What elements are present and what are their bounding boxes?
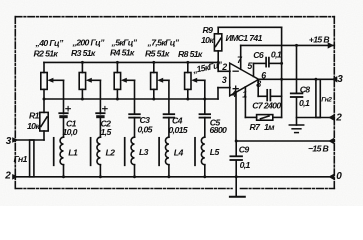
terminal 2 (output common, right)	[328, 114, 334, 120]
wire: output line pin6 to terminal 3	[258, 78, 335, 80]
junction: top bus / R9 / pin2	[217, 61, 220, 64]
junction: Гн2 top / output line	[314, 78, 317, 81]
capacitor C2 (electrolytic)	[96, 106, 107, 137]
wire: terminal 2 line (right)	[297, 117, 335, 119]
core of inductor L1	[53, 138, 55, 166]
wire: pin 2 stub	[218, 70, 230, 72]
svg-text:L4: L4	[174, 148, 184, 158]
svg-text:„5кГц”: „5кГц”	[111, 37, 138, 47]
inductor L5	[201, 137, 204, 165]
svg-text:„40 Гц”: „40 Гц”	[35, 38, 64, 48]
junction: L3/ground bus	[133, 175, 136, 178]
resistor R1	[40, 99, 48, 140]
ground symbol below bus	[230, 177, 245, 197]
terminal 2 (input common, left)	[12, 174, 18, 180]
wire: R8 wiper riser to C5	[204, 80, 206, 114]
inductor L2	[97, 137, 100, 165]
wire: L5 to ground bus	[204, 165, 206, 177]
terminal 3 (input, left)	[12, 137, 18, 143]
svg-text:1: 1	[242, 90, 247, 100]
junction: L1/ground bus	[62, 175, 65, 178]
svg-text:L2: L2	[106, 148, 116, 158]
svg-text:C6: C6	[253, 50, 264, 60]
wire: -15V rail	[236, 140, 334, 142]
wire: pin 7 riser to +15V rail	[240, 45, 242, 69]
potentiometer R2	[41, 62, 64, 99]
core of inductor L2	[90, 138, 92, 166]
capacitor C5	[200, 114, 211, 137]
svg-text:10,0: 10,0	[63, 127, 78, 137]
wire: pin 1 stub to R7	[244, 87, 246, 118]
junction: R3 top / bus	[81, 61, 84, 64]
junction: C8 riser / +15V rail	[295, 44, 298, 47]
dash-dot enclosure border top	[15, 16, 334, 18]
junction: R4 top / bus	[116, 61, 119, 64]
svg-text:„7,5кГц”: „7,5кГц”	[147, 37, 180, 47]
capacitor C7	[258, 90, 281, 101]
svg-text:3: 3	[222, 75, 227, 85]
junction: R8 top / bus	[186, 61, 189, 64]
svg-text:8: 8	[256, 79, 261, 89]
svg-text:2400: 2400	[263, 101, 282, 111]
svg-text:C9: C9	[239, 145, 250, 155]
junction: output / feedback riser	[280, 78, 283, 81]
wire: L1 to ground bus	[63, 165, 65, 177]
svg-text:R8 51к: R8 51к	[178, 49, 203, 59]
potentiometer R5	[151, 62, 169, 99]
dash-dot enclosure border left	[14, 17, 16, 189]
wire: L2 to ground bus	[99, 165, 101, 177]
terminal -15V arrow	[328, 138, 334, 144]
wire: pin 8 stub to C7	[257, 80, 259, 96]
junction: L4/ground bus	[167, 175, 170, 178]
wire: feedback line R9 top to output riser	[218, 26, 281, 28]
junction: R1 / R2 bottom / input bus	[43, 98, 46, 101]
wire: R2 wiper riser to C1	[63, 80, 65, 113]
wire: pin 3 stub and riser to input bus	[218, 87, 230, 89]
potentiometer R3	[79, 62, 100, 99]
dash-dot enclosure border bottom (gap at ground symbol)	[15, 188, 232, 190]
svg-text:1м: 1м	[264, 122, 275, 132]
wire: input terminal 3 to R1	[15, 139, 44, 141]
junction: R5 bottom / input bus	[152, 98, 155, 101]
terminal +15V arrow	[328, 42, 334, 48]
junction: C9 / ground bus	[235, 175, 238, 178]
svg-text:10к: 10к	[27, 121, 40, 131]
ground symbol at C8	[289, 125, 303, 133]
connector Гн1	[30, 140, 34, 177]
terminal 3 (output, right)	[332, 76, 338, 82]
wire: R5 wiper riser to C4	[168, 80, 170, 114]
svg-text:0,1: 0,1	[240, 160, 251, 170]
svg-text:4: 4	[231, 89, 237, 99]
wire: pin 5 stub	[253, 63, 255, 76]
svg-text:R1: R1	[29, 110, 40, 120]
wire: R4 wiper riser to C3	[134, 80, 136, 114]
potentiometer R4	[114, 62, 134, 99]
core of inductor L4	[158, 138, 160, 166]
svg-text:ИМС1 741: ИМС1 741	[226, 33, 263, 43]
svg-text:0,1: 0,1	[271, 50, 282, 60]
wire: R3 wiper riser to C2	[99, 80, 101, 113]
junction: L5/ground bus	[203, 175, 206, 178]
wire: L4 to ground bus	[168, 165, 170, 177]
svg-text:6800: 6800	[210, 125, 228, 135]
svg-text:1,5: 1,5	[101, 127, 112, 137]
wire: input bus (after R1)	[44, 98, 218, 100]
svg-text:C8: C8	[300, 84, 311, 94]
junction: pin4 / C9 / -15V rail	[235, 140, 238, 143]
svg-text:0,05: 0,05	[138, 125, 153, 135]
core of inductor L5	[194, 138, 196, 166]
svg-text:0,015: 0,015	[169, 125, 188, 135]
inductor L1	[60, 137, 63, 165]
svg-text:L1: L1	[68, 148, 78, 158]
op-amp U1 (ИМС1 741)	[230, 63, 259, 96]
capacitor C1 (electrolytic)	[59, 106, 70, 137]
svg-text:−15 В: −15 В	[308, 144, 329, 154]
svg-text:C3: C3	[140, 115, 151, 125]
svg-text:L5: L5	[210, 147, 220, 157]
junction: R8 bottom / input bus	[186, 98, 189, 101]
wire: C8 riser from +15V rail	[296, 45, 298, 93]
resistor R9	[214, 27, 221, 71]
svg-text:R4 51к: R4 51к	[110, 48, 135, 58]
svg-text:2: 2	[221, 62, 227, 72]
capacitor C4	[164, 114, 175, 137]
wire: +15V rail	[241, 44, 335, 46]
svg-text:Гн2: Гн2	[321, 96, 332, 103]
connector Гн2	[316, 79, 320, 117]
dash-dot enclosure border right	[333, 17, 335, 189]
core of inductor L3	[124, 138, 126, 166]
svg-text:6: 6	[261, 70, 266, 80]
inductor L4	[165, 137, 168, 165]
svg-text:+15 В: +15 В	[309, 35, 330, 45]
capacitor C8	[291, 93, 303, 125]
svg-text:R9: R9	[203, 25, 214, 35]
svg-text:„200 Гц”: „200 Гц”	[72, 37, 106, 47]
svg-text:5: 5	[247, 61, 252, 71]
junction: R4 bottom / input bus	[116, 98, 119, 101]
wire: riser joining C7/R7 to output	[281, 79, 283, 117]
capacitor C9	[230, 141, 242, 177]
capacitor C6	[254, 58, 282, 67]
wire: inverting-input top bus	[44, 61, 218, 63]
svg-text:R5 51к: R5 51к	[145, 49, 170, 59]
svg-text:R2 51к: R2 51к	[34, 48, 59, 58]
resistor R7	[257, 115, 282, 121]
junction: C6 / output riser	[280, 62, 283, 65]
svg-text:C4: C4	[172, 116, 183, 126]
svg-text:L3: L3	[139, 147, 149, 157]
terminal 0 (right, ground)	[328, 174, 334, 180]
potentiometer R8	[185, 62, 205, 99]
svg-text:R3 51к: R3 51к	[71, 48, 96, 58]
wire: ground bus along bottom	[15, 176, 331, 178]
svg-text:Гн1: Гн1	[14, 154, 28, 164]
junction: wiper5 riser / input bus	[203, 98, 206, 101]
junction: R5 top / bus	[152, 61, 155, 64]
junction: L2/ground bus	[99, 175, 102, 178]
svg-text:10к: 10к	[201, 35, 214, 45]
inductor L3	[131, 137, 134, 165]
wire: L3 to ground bus	[134, 165, 136, 177]
wire: pin 4 riser to -15V rail	[235, 93, 237, 141]
junction: R3 bottom / input bus	[81, 98, 84, 101]
svg-text:0,1: 0,1	[299, 98, 310, 108]
capacitor C3	[129, 114, 140, 137]
